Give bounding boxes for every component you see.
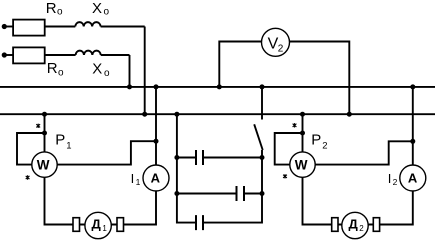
ammeter A2 bbox=[400, 165, 426, 191]
ammeter A1 bbox=[143, 165, 169, 191]
node junction capacitor bank feed on bus L2 bbox=[174, 112, 179, 117]
wire W2 voltage coil loop bbox=[275, 133, 303, 165]
svg-text:X: X bbox=[92, 60, 102, 77]
svg-text:2: 2 bbox=[393, 177, 398, 187]
svg-text:o: o bbox=[104, 68, 110, 79]
wire W1 voltage coil loop bbox=[17, 133, 45, 165]
terminal box D1 right bbox=[117, 218, 124, 232]
node junction C2 right rail bbox=[260, 191, 265, 196]
polarity asterisk W2 voltage coil bbox=[283, 174, 287, 178]
wire A2 bottom to D2 bbox=[377, 191, 413, 225]
svg-text:W: W bbox=[37, 157, 50, 172]
svg-text:W: W bbox=[295, 157, 308, 172]
node junction A2/W2 bbox=[410, 139, 415, 144]
node junction A1 feed on bus L1 bbox=[154, 84, 159, 89]
node junction W1 voltage tap bbox=[42, 131, 47, 136]
svg-text:2: 2 bbox=[359, 224, 364, 233]
terminal box D2 right bbox=[373, 218, 379, 232]
svg-text:o: o bbox=[58, 68, 64, 79]
wire voltmeter V2 left lead bbox=[219, 42, 262, 87]
switch S1 blade bbox=[254, 124, 263, 150]
svg-text:R: R bbox=[46, 0, 57, 17]
svg-text:Д: Д bbox=[92, 217, 102, 232]
node junction V2 right on bus L2 bbox=[347, 112, 352, 117]
svg-text:2: 2 bbox=[322, 140, 327, 151]
wire bus line L1 bbox=[0, 86, 435, 88]
voltmeter V2 bbox=[262, 28, 290, 56]
wire A1 bottom to D1 bbox=[123, 191, 156, 225]
wire voltmeter V2 right lead bbox=[289, 42, 349, 115]
resistor R0 (top branch) bbox=[13, 20, 45, 36]
motor D2 bbox=[342, 212, 368, 238]
wire X0 bottom to corner bbox=[101, 54, 130, 56]
wire terminal to R0 bottom bbox=[4, 54, 14, 56]
svg-text:o: o bbox=[104, 7, 110, 18]
node junction A1/W1 bbox=[154, 139, 159, 144]
svg-text:A: A bbox=[151, 171, 161, 186]
wire W1 feed vertical bbox=[44, 114, 46, 152]
capacitor C3 (bottom) bbox=[196, 215, 203, 230]
wire W2 feed vertical bbox=[302, 114, 304, 152]
node junction W2 voltage tap bbox=[300, 131, 305, 136]
svg-text:P: P bbox=[55, 132, 65, 149]
inductor X0 (second branch) bbox=[76, 51, 101, 55]
node junction C1 left rail bbox=[174, 155, 179, 160]
node junction branch2 on bus L1 bbox=[127, 84, 132, 89]
wire W1 bottom to D1 bbox=[45, 177, 75, 224]
node junction W1 feed on bus L2 bbox=[42, 112, 47, 117]
wire terminal to R0 top bbox=[4, 26, 14, 28]
polarity asterisk W1 voltage coil bbox=[26, 175, 30, 179]
wire R0 to X0 top bbox=[45, 26, 76, 28]
wire W2 current out to A2 node bbox=[315, 141, 413, 164]
motor D1 bbox=[85, 212, 111, 238]
svg-text:I: I bbox=[388, 171, 392, 186]
wire W2 bottom to D2 bbox=[303, 177, 334, 224]
wire capacitor top branch left bbox=[177, 157, 196, 159]
svg-text:o: o bbox=[57, 7, 63, 18]
svg-text:1: 1 bbox=[66, 140, 71, 151]
node junction V2 left on bus L1 bbox=[217, 84, 222, 89]
svg-text:A: A bbox=[408, 171, 418, 186]
polarity asterisk W2 current coil bbox=[293, 123, 297, 127]
wire R0 to X0 bottom bbox=[45, 54, 76, 56]
wire capacitor middle branch right bbox=[244, 193, 262, 195]
svg-text:Д: Д bbox=[349, 217, 359, 232]
svg-text:R: R bbox=[47, 60, 58, 77]
wattmeter W1 bbox=[32, 152, 57, 177]
resistor R0 (second branch) bbox=[13, 47, 45, 63]
wire A1 feed vertical from bus L1 bbox=[155, 87, 157, 166]
svg-text:I: I bbox=[131, 171, 135, 186]
polarity asterisk W1 current coil bbox=[36, 124, 40, 128]
wire branch2 vertical down to bus L1 bbox=[129, 55, 131, 87]
wire branch1 vertical down to bus L2 bbox=[144, 27, 146, 115]
node junction C2 left rail bbox=[174, 191, 179, 196]
wire capacitor bank bottom branch right and right rail bbox=[203, 150, 262, 223]
svg-text:2: 2 bbox=[278, 43, 284, 54]
wire capacitor bank left rail and bottom branch left bbox=[177, 114, 196, 222]
node junction C1 right rail bbox=[260, 155, 265, 160]
wattmeter W2 bbox=[290, 152, 315, 177]
inductor X0 (top branch) bbox=[75, 22, 100, 26]
node junction W2 feed on bus L2 bbox=[300, 112, 305, 117]
wire switch fixed contact lead bbox=[261, 87, 263, 120]
node junction branch1 on bus L2 bbox=[142, 112, 147, 117]
wire W1 current out to A1 node bbox=[57, 141, 156, 164]
wire D1 branch horizontal bbox=[70, 224, 126, 226]
wire bus line L2 bbox=[0, 113, 435, 115]
node junction A2 feed on bus L1 bbox=[410, 84, 415, 89]
svg-text:X: X bbox=[92, 0, 102, 17]
svg-text:1: 1 bbox=[102, 224, 107, 233]
node terminal dot branch 1 bbox=[2, 24, 7, 29]
svg-text:P: P bbox=[311, 132, 321, 149]
wire X0 top to corner bbox=[101, 26, 145, 28]
svg-text:1: 1 bbox=[136, 177, 141, 187]
node terminal dot branch 2 bbox=[2, 52, 7, 57]
capacitor C1 (top) bbox=[196, 150, 203, 165]
wire A2 feed vertical from bus L1 bbox=[412, 87, 414, 166]
wire capacitor top branch right bbox=[203, 157, 262, 159]
capacitor C2 (middle) bbox=[237, 186, 245, 201]
wire capacitor middle branch left bbox=[177, 193, 237, 195]
terminal box D2 left bbox=[332, 218, 338, 232]
node junction switch on bus L1 bbox=[260, 84, 265, 89]
terminal box D1 left bbox=[73, 218, 80, 232]
wire D2 branch horizontal bbox=[330, 224, 380, 226]
